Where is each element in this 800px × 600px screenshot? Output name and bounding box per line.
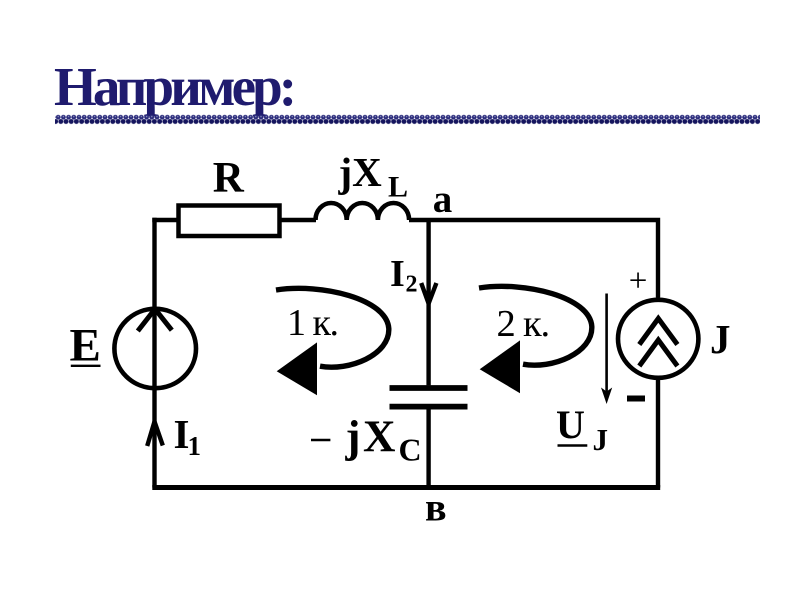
wire: resistor to inductor segment [279, 218, 316, 222]
inductor jXL (three humps) [316, 203, 410, 220]
svg-text:I: I [390, 253, 405, 295]
voltage arrow U_J [601, 294, 612, 405]
capacitor C plates [390, 388, 468, 407]
minus sign [627, 396, 645, 402]
loop 1 contour arrow [276, 288, 389, 395]
svg-text:+: + [629, 263, 648, 299]
wire: right vertical below J source [656, 380, 660, 488]
wire: bottom horizontal [152, 485, 660, 490]
resistor R [179, 206, 280, 237]
svg-text:J: J [593, 422, 609, 457]
svg-text:1 к.: 1 к. [287, 302, 337, 344]
voltage source E (circle with up arrow) [114, 309, 196, 388]
svg-text:a: a [433, 178, 453, 221]
svg-text:в: в [425, 485, 447, 530]
svg-text:E: E [70, 320, 101, 372]
current I1 arrow [147, 422, 163, 447]
loop 2 contour arrow [479, 286, 592, 393]
svg-text:J: J [710, 316, 731, 362]
wire: middle vertical from node a to capacitor [426, 220, 430, 385]
svg-text:jX: jX [338, 149, 383, 195]
current source J [618, 300, 698, 378]
capacitor minus sign [311, 439, 330, 442]
svg-text:jX: jX [345, 411, 398, 461]
wire: middle vertical below capacitor [426, 408, 430, 488]
svg-text:1: 1 [188, 431, 202, 461]
wire: left vertical branch [152, 218, 156, 488]
wire: top-left horizontal segment [152, 218, 180, 222]
svg-text:L: L [388, 170, 408, 203]
svg-text:R: R [213, 155, 245, 202]
svg-text:2: 2 [406, 271, 418, 297]
current I2 arrow [421, 283, 436, 304]
svg-text:C: C [399, 432, 422, 468]
title "Например:" [54, 59, 293, 114]
wire: inductor to top-right corner and right vertical down to J source [409, 220, 658, 298]
svg-text:2 к.: 2 к. [497, 303, 549, 345]
svg-text:U: U [556, 402, 585, 447]
